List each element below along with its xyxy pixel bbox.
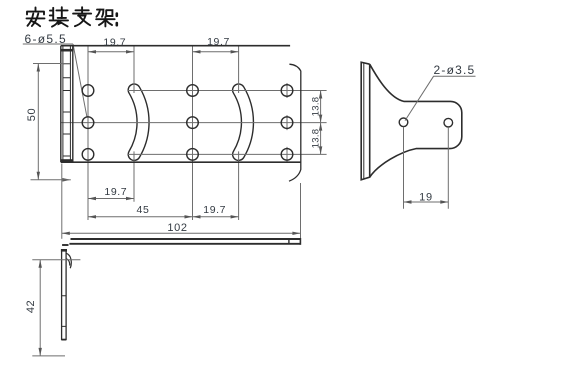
102 [62,232,70,235]
plate bottom edge [61,161,301,163]
thin lines layer under part outlines [23,44,87,117]
row 2 horizontal center line [61,122,327,124]
col B vertical center line [192,46,194,220]
9 holes ø5.5 [82,85,293,161]
col C vertical ticks through holes [286,83,288,162]
slot 1 (curved slot) [134,90,143,154]
leg ticks [62,296,67,327]
svg-text:19.7: 19.7 [103,37,126,49]
svg-text:42: 42 [25,300,37,313]
plate right break line [289,64,301,181]
row 3 horizontal center line [128,153,327,155]
leader diagonal to hole A2 [73,44,87,117]
plate edge strip [62,238,300,245]
slot2 chord extension line (broken at slot) [238,46,240,220]
top dim line 19.7 #1 [88,51,134,53]
bottom 19.7 L [88,197,96,200]
dim texts main view [25,32,322,234]
svg-text:19.7: 19.7 [207,36,230,48]
svg-text:13.8: 13.8 [311,97,322,117]
slot 2 (curved slot) [239,90,248,154]
strip top cap [61,49,73,52]
svg-text:45: 45 [137,204,150,216]
mounting strip of side view [361,62,370,180]
side view outline [361,62,462,180]
bottom dim 102 [62,232,301,234]
bottom dim 19.7 left [88,198,134,200]
svg-text:19: 19 [419,192,433,204]
side view holes 2-ø3.5 [399,118,452,127]
45 [88,215,96,218]
flange leg [61,250,71,340]
bottom 19.7 R [193,215,201,218]
svg-text:13.8: 13.8 [311,129,322,149]
19.7#1 [88,50,96,53]
svg-text:19.7: 19.7 [203,204,226,216]
ext line x=300.5 [300,183,302,239]
label 6-ø5.5 leader underline [23,43,73,45]
bend curl [66,253,71,268]
ext line x=61.8 [61,164,63,239]
50 [37,64,40,72]
19.7#2 [193,50,201,53]
leg top cap [61,249,67,252]
支 [73,7,91,26]
svg-text:2-ø3.5: 2-ø3.5 [434,63,476,77]
center / extension lines of main view [61,46,327,220]
50 dim: exts + line [31,64,71,180]
2-ø3.5 leader [405,76,476,120]
svg-text:102: 102 [167,222,187,234]
plate top edge [61,45,290,47]
col A vertical center line [87,46,89,220]
13.8 chain [319,91,322,99]
42 dim [32,260,80,356]
left hinge strip of plate [61,46,73,163]
top dim line 19.7 #2 [193,51,239,53]
bottom dim 45 / 19.7 right [88,216,239,218]
arrowheads (main view) [37,50,323,235]
left dash [62,244,68,246]
fullwidth colon [116,14,119,26]
装 [50,7,68,26]
svg-text:19.7: 19.7 [104,186,127,198]
安 [27,8,45,27]
strip bottom cap [61,159,73,162]
title 安装支架: (hand-drawn CJK strokes) [27,7,117,26]
架 [96,10,114,27]
slot1 chord extension line (broken at slot) [133,46,135,202]
strip ticks [63,64,71,156]
svg-text:6-ø5.5: 6-ø5.5 [25,32,67,46]
13.8 dims: line [320,91,322,155]
svg-text:50: 50 [26,108,38,121]
leg bottom cap [61,339,66,341]
row 1 horizontal center line [128,90,327,92]
19 dim of side view [404,127,449,209]
